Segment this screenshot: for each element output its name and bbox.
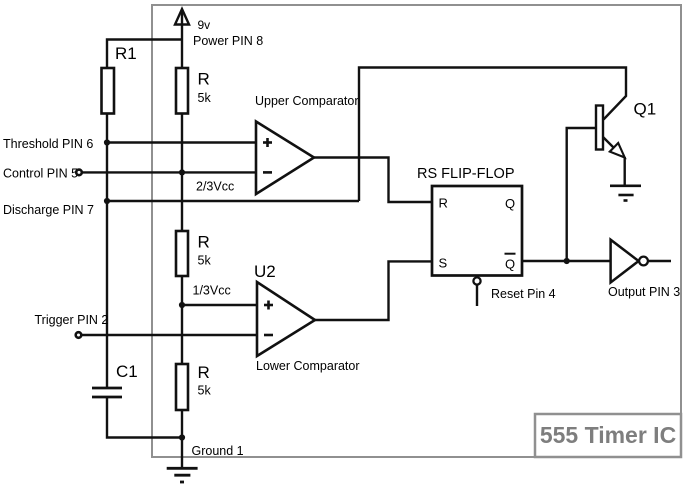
node: Q-bar branch junction <box>564 258 570 264</box>
resistor R (middle 5k) <box>176 231 188 276</box>
resistor R (top 5k) <box>176 68 188 114</box>
wire: divider rail bottom R to ground node <box>181 410 183 468</box>
plus input marker (upper) <box>263 138 272 147</box>
svg-text:Ground 1: Ground 1 <box>192 444 244 458</box>
power supply arrow symbol (9v) <box>175 9 189 25</box>
transistor Q1 (discharge) <box>596 106 625 186</box>
wire: upper comparator output to flip-flop R input <box>314 158 432 203</box>
wire: power rail vertical (Vcc down through divider) <box>181 12 183 69</box>
plus input marker (lower) <box>264 301 273 310</box>
svg-text:Output PIN 3: Output PIN 3 <box>608 285 680 299</box>
svg-text:9v: 9v <box>198 18 211 32</box>
svg-text:5k: 5k <box>198 91 212 105</box>
wire: R1 top feed from power rail <box>107 40 182 69</box>
wire: Trigger PIN 2 line to lower comparator - input <box>80 334 258 336</box>
terminal: control pin open circle <box>76 170 82 176</box>
IC boundary box (555 internals) <box>152 5 681 457</box>
svg-text:5k: 5k <box>198 384 212 398</box>
wire: lower comparator output to flip-flop S input <box>315 261 432 320</box>
op-amp U2 lower comparator <box>257 282 315 356</box>
svg-text:Control PIN 5: Control PIN 5 <box>3 167 78 181</box>
wire: Q1 emitter to ground <box>624 157 626 186</box>
svg-text:R: R <box>198 70 210 89</box>
svg-text:S: S <box>439 256 448 271</box>
555 Timer IC label box <box>535 414 681 457</box>
wire: Control PIN 5 line to upper comparator - input <box>80 171 257 173</box>
wire: inverter output stub (Output PIN 3) <box>648 260 671 262</box>
wire: riser from Q-bar junction to Q1 base <box>567 128 596 261</box>
svg-text:2/3Vcc: 2/3Vcc <box>196 180 234 194</box>
svg-text:Q: Q <box>505 257 515 272</box>
node: discharge junction on left rail <box>104 198 110 204</box>
svg-text:Discharge PIN 7: Discharge PIN 7 <box>3 203 94 217</box>
svg-text:R: R <box>439 196 448 211</box>
svg-text:U2: U2 <box>254 262 276 281</box>
node: ground junction on divider rail <box>179 434 185 440</box>
resistor R (bottom 5k) <box>176 364 188 410</box>
node: threshold junction on left rail <box>104 139 110 145</box>
minus input marker (lower) <box>264 334 273 337</box>
wire: discharge riser and top wire to Q1 collector <box>359 68 626 202</box>
wire: left branch rail (R1 bottom down to C1) <box>106 114 108 389</box>
reset pin bubble <box>473 277 480 284</box>
svg-text:R: R <box>198 363 210 382</box>
wire: divider rail between middle R and bottom R <box>181 276 183 364</box>
wire: 1/3Vcc to lower comparator + input <box>182 304 258 306</box>
node: 2/3Vcc junction on divider rail <box>179 169 185 175</box>
svg-text:5k: 5k <box>198 254 212 268</box>
resistor R1 <box>102 68 115 114</box>
svg-text:555 Timer IC: 555 Timer IC <box>540 422 676 448</box>
svg-text:Q: Q <box>505 196 515 211</box>
svg-text:RS FLIP-FLOP: RS FLIP-FLOP <box>417 166 515 182</box>
Q1 emitter arrowhead (open) <box>610 143 625 158</box>
inverter bubble <box>639 257 648 266</box>
op-amp U1 upper comparator <box>256 122 314 195</box>
wire: Discharge PIN 7 line <box>107 200 359 202</box>
ground (Q1 emitter) <box>610 186 641 201</box>
Q1 base bar <box>596 106 603 150</box>
minus input marker (upper) <box>263 171 272 174</box>
wire: divider rail between top R and middle R <box>181 114 183 232</box>
svg-text:Trigger PIN 2: Trigger PIN 2 <box>35 313 109 327</box>
svg-text:Upper Comparator: Upper Comparator <box>255 94 359 108</box>
svg-text:Reset Pin 4: Reset Pin 4 <box>491 287 556 301</box>
wire: Threshold PIN 6 line to upper comparator + input <box>107 141 257 143</box>
svg-text:1/3Vcc: 1/3Vcc <box>193 284 231 298</box>
inverter (output buffer) <box>611 240 639 283</box>
svg-text:C1: C1 <box>116 362 138 381</box>
Q1 emitter line <box>603 137 615 149</box>
RS flip-flop box <box>432 186 522 276</box>
svg-text:Threshold PIN 6: Threshold PIN 6 <box>3 137 93 151</box>
svg-text:Power PIN 8: Power PIN 8 <box>193 34 263 48</box>
pin label Q-bar <box>505 254 516 272</box>
svg-text:Lower Comparator: Lower Comparator <box>256 359 360 373</box>
wire: reset pin stem <box>476 285 478 306</box>
svg-text:R: R <box>198 233 210 252</box>
capacitor C1 <box>92 388 122 397</box>
terminal: trigger pin open circle <box>76 332 82 338</box>
svg-text:R1: R1 <box>115 44 137 63</box>
svg-text:Q1: Q1 <box>634 100 657 119</box>
wire: Q-bar output to inverter, with branch up to Q1 base <box>522 260 610 262</box>
wire: C1 bottom to ground node <box>107 397 182 438</box>
ground (main, bottom) <box>167 468 198 482</box>
node 1/3Vcc junction on divider rail <box>179 302 185 308</box>
